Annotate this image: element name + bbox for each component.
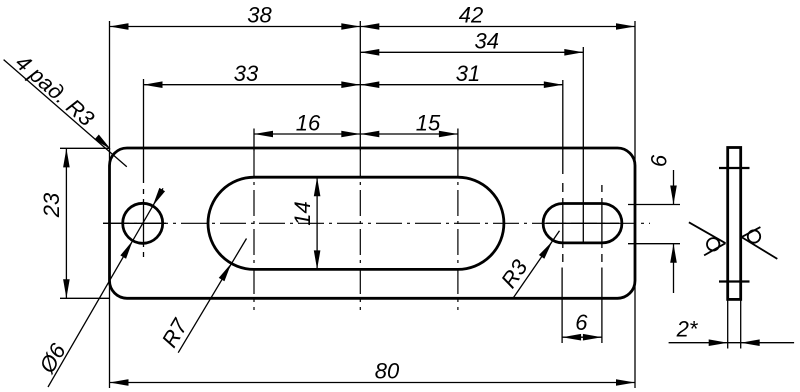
right edge extension lines [634, 21, 636, 388]
dimension 31 [360, 61, 563, 88]
svg-text:4 рад. R3: 4 рад. R3 [11, 50, 100, 132]
dimension 15 [360, 110, 458, 137]
dimension 34 [360, 29, 583, 56]
central slot R7 [208, 177, 504, 269]
slot right arc centerline [457, 129, 459, 311]
central vertical line [359, 21, 361, 310]
svg-text:Ø6: Ø6 [34, 339, 71, 378]
dimension 2* [669, 299, 795, 348]
surface mark right [742, 227, 778, 259]
right slot right arc centerline [601, 185, 603, 343]
svg-text:80: 80 [375, 359, 400, 384]
right slot mid extension line [582, 47, 584, 243]
left edge extension lines [109, 21, 111, 388]
svg-text:34: 34 [475, 29, 499, 54]
side view tick bottom [719, 280, 750, 282]
dimension 16 [254, 110, 360, 137]
leader label R3 [496, 231, 560, 297]
leader label R7 [157, 239, 247, 353]
leader label 4 rad R3 [4, 50, 127, 167]
dimension 42 [360, 3, 635, 30]
svg-text:38: 38 [247, 3, 272, 28]
right slot left arc centerline [561, 80, 564, 343]
svg-text:2*: 2* [676, 317, 699, 342]
dimension 38 [110, 3, 361, 30]
dimension 6 side view [628, 154, 680, 293]
surface mark left [689, 222, 726, 255]
leader label O6 [34, 188, 165, 387]
hole vertical centerline [143, 79, 145, 257]
svg-text:R7: R7 [157, 314, 193, 352]
svg-text:6: 6 [575, 310, 588, 335]
main horizontal centerline [103, 222, 650, 224]
svg-text:33: 33 [234, 61, 259, 86]
svg-text:14: 14 [290, 201, 315, 225]
svg-text:15: 15 [416, 110, 441, 135]
slot left arc centerline [253, 129, 255, 311]
svg-text:31: 31 [456, 61, 480, 86]
dimension 80 [110, 359, 636, 386]
plate outline [110, 148, 636, 298]
right slot R3 [543, 204, 622, 243]
dimension 23 [39, 148, 109, 298]
side view plate [728, 148, 741, 300]
hole O6 [123, 203, 163, 243]
svg-text:42: 42 [459, 3, 483, 28]
dimension 33 [144, 61, 361, 88]
dimension 6 bottom [562, 310, 602, 341]
dimension 14 [290, 177, 320, 269]
side view tick top [719, 167, 750, 169]
svg-text:6: 6 [647, 154, 672, 167]
svg-text:23: 23 [39, 192, 64, 218]
svg-text:R3: R3 [496, 254, 533, 292]
svg-text:16: 16 [296, 110, 321, 135]
